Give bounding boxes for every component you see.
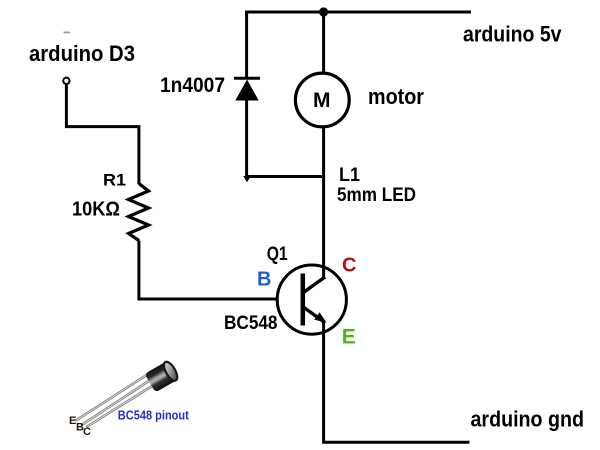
transistor Q1 <box>277 265 346 334</box>
svg-text:L1: L1 <box>339 165 360 186</box>
svg-text:BC548 pinout: BC548 pinout <box>118 409 190 423</box>
svg-text:10KΩ: 10KΩ <box>72 198 120 221</box>
motor M1 <box>295 73 349 127</box>
svg-text:arduino 5v: arduino 5v <box>463 22 562 47</box>
svg-text:R1: R1 <box>103 171 126 190</box>
svg-text:E: E <box>342 325 356 348</box>
junction dot top <box>319 7 328 16</box>
node terminal D3 <box>63 78 69 84</box>
transistor body <box>145 360 180 393</box>
svg-text:5mm LED: 5mm LED <box>337 185 416 206</box>
svg-text:motor: motor <box>368 84 424 109</box>
svg-text:arduino D3: arduino D3 <box>29 41 135 66</box>
wire diode branch bottom <box>245 100 248 177</box>
svg-text:arduino gnd: arduino gnd <box>471 407 585 432</box>
svg-text:B: B <box>257 269 271 291</box>
BC548 pinout photo <box>69 360 190 438</box>
wire emitter to gnd <box>324 322 470 442</box>
artifact dash above arduino D3 <box>64 32 71 34</box>
wire diode branch top <box>245 11 248 79</box>
resistor R1 <box>129 184 149 241</box>
wire top rail <box>245 11 471 14</box>
svg-text:C: C <box>83 426 91 438</box>
wire diode to LED branch <box>245 175 322 178</box>
svg-text:C: C <box>342 254 356 276</box>
wire 5v to motor <box>322 12 325 73</box>
svg-text:Q1: Q1 <box>267 244 288 265</box>
transistor leads <box>76 374 154 427</box>
wire motor to collector <box>322 128 325 279</box>
junction tip at diode corner <box>243 176 251 182</box>
wire resistor to base <box>139 241 277 300</box>
wire D3 to resistor <box>66 84 138 184</box>
diode 1n4007 <box>234 78 260 100</box>
svg-text:1n4007: 1n4007 <box>160 74 225 97</box>
svg-text:BC548: BC548 <box>224 313 278 334</box>
svg-text:M: M <box>313 89 331 112</box>
